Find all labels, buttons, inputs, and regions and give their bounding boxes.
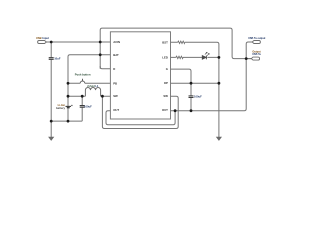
push button S1 <box>80 79 85 84</box>
svg-text:BST: BST <box>162 40 168 44</box>
svg-text:SW: SW <box>163 94 168 98</box>
capacitor C3 plates <box>189 96 194 98</box>
battery BT1 <box>66 105 73 108</box>
wire OUT row right: IC to corner up to output tags <box>171 42 253 111</box>
USB input connector J1 tag <box>38 41 47 44</box>
wire R1 row: IC to resistor, elbow down to LED row <box>171 42 219 57</box>
ground symbol right <box>216 137 222 141</box>
resistor R1 <box>178 41 185 43</box>
node G/OP junction <box>190 82 193 85</box>
node SW loop junction <box>101 95 104 98</box>
node output tag junction <box>245 57 248 60</box>
wire D pin stub from V1 <box>100 66 110 69</box>
wire battery cap branch C2 vertical <box>81 96 83 121</box>
pin labels <box>113 40 168 112</box>
resistor R2 <box>176 56 183 58</box>
svg-text:USB Input: USB Input <box>36 36 49 40</box>
svg-text:OUT: OUT <box>113 108 119 112</box>
svg-text:2.2uH L1: 2.2uH L1 <box>87 84 99 88</box>
wire OP row <box>171 82 219 84</box>
wire SW outer loop: left vertical, bottom, right vertical up to right SW pin <box>102 96 178 128</box>
svg-text:Push button: Push button <box>75 73 91 77</box>
wire OUT inner loop: left OUT pin down, bottom, up to right OUT row <box>106 111 175 125</box>
node C2 branch junction <box>81 95 84 98</box>
node C3/OUT junction <box>190 109 193 112</box>
svg-text:USB 5v output: USB 5v output <box>248 37 265 40</box>
wire output cap C3 vertical (gap for plates) <box>190 83 192 111</box>
wire SW row left: rail to inductor to IC <box>68 95 110 97</box>
svg-text:G: G <box>166 67 168 71</box>
net / part labels <box>36 36 266 110</box>
node OP/ground junction <box>218 82 221 85</box>
node LED cathode junction <box>218 56 221 59</box>
capacitor C2 plates <box>80 106 85 108</box>
wire ground vertical V5 with ground arrow <box>218 57 220 137</box>
wire top BAT loop: vertical V1, top line, hook down to output tag row <box>100 28 251 69</box>
svg-text:OUT: OUT <box>162 108 168 112</box>
svg-text:PB: PB <box>113 81 117 85</box>
ground symbol left <box>48 137 54 141</box>
USB 5v output connector J2 tag <box>252 41 260 44</box>
svg-text:battery: battery <box>56 106 65 110</box>
svg-text:USB 5v: USB 5v <box>252 53 261 56</box>
capacitor C1 plates <box>49 58 54 60</box>
svg-text:LED: LED <box>162 55 168 59</box>
svg-text:OP: OP <box>164 81 168 85</box>
node ACIN/V1 junction <box>99 41 102 44</box>
inductor L1 coil <box>85 87 100 96</box>
wire BAT row to left rail <box>68 55 110 121</box>
wire bottom ground rail <box>51 120 82 122</box>
node OUT loop junction <box>174 109 177 112</box>
svg-text:100uF: 100uF <box>84 104 92 108</box>
svg-text:D: D <box>113 67 115 71</box>
junction dots <box>50 41 248 123</box>
wire PB row: rail to button to IC (gap for button) <box>68 82 110 84</box>
wire G pin elbow down <box>171 69 192 83</box>
node ground rail left junction <box>50 120 53 123</box>
node USB input junction <box>50 41 53 44</box>
wire LED row: IC to resistor to LED to ground vertical <box>171 56 219 58</box>
svg-text:10uF: 10uF <box>54 56 61 60</box>
Output USB 5v connector J3 tag <box>251 57 259 60</box>
LED D1 <box>202 52 209 59</box>
node rail/SW junction <box>67 95 70 98</box>
svg-text:BAT: BAT <box>113 53 119 57</box>
IC U1 body <box>110 32 170 119</box>
svg-text:SW: SW <box>113 94 118 98</box>
wire input cap branch: vertical below USB junction (gap for C1) <box>50 42 52 137</box>
wire ACIN row from USB input to IC <box>46 41 110 43</box>
svg-text:ACIN: ACIN <box>113 40 120 44</box>
wire output tag2 stub <box>246 58 251 60</box>
svg-text:100uF: 100uF <box>194 95 202 99</box>
node ground rail battery junction <box>67 120 70 123</box>
node BAT/V1 junction <box>99 53 102 56</box>
node rail/PB junction <box>67 82 70 85</box>
